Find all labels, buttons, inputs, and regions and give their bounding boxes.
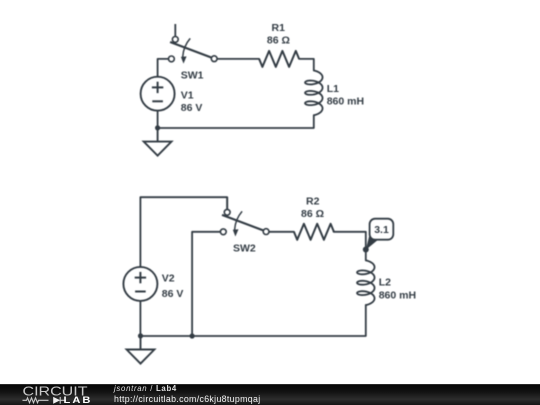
footer credit text (114, 386, 261, 402)
svg-text:860 mH: 860 mH (327, 96, 364, 108)
svg-text:860 mH: 860 mH (379, 289, 416, 301)
wire: SW1 left terminal to V1 top (158, 59, 169, 77)
wire: L2 bottom to bottom rail back to V2 junction (140, 305, 365, 336)
svg-text:86 Ω: 86 Ω (301, 208, 324, 220)
svg-text:LAB: LAB (64, 395, 93, 405)
resistor R1 (259, 51, 299, 67)
resistor R2 (294, 224, 334, 240)
ground (top circuit) (144, 128, 172, 156)
wire: SW2 right terminal to R2 (269, 231, 294, 233)
svg-text:86 Ω: 86 Ω (267, 34, 290, 46)
svg-text:V1: V1 (181, 90, 194, 102)
wire: SW2 left terminal down to bottom rail (192, 232, 220, 336)
voltage source V1 (141, 77, 175, 111)
svg-text:3.1: 3.1 (374, 224, 389, 236)
wire: V2 top up and right to SW2 stub (140, 197, 227, 267)
switch SW2 (220, 197, 269, 237)
inductor L1 (305, 71, 323, 116)
switch SW1 (169, 24, 218, 64)
junction dot at V2 ground node (138, 333, 143, 338)
svg-text:SW1: SW1 (181, 70, 204, 82)
ground (bottom circuit) (127, 336, 155, 364)
inductor L2 (357, 260, 375, 305)
node 3.1 dot (363, 247, 369, 253)
wire: SW1 right terminal to R1 (217, 58, 259, 60)
svg-text:86 V: 86 V (181, 102, 203, 114)
svg-text:V2: V2 (162, 273, 175, 285)
CircuitLab logo (0, 384, 110, 405)
footer bar (0, 384, 540, 405)
svg-text:L2: L2 (379, 277, 391, 289)
wire: R1 to L1 top (299, 59, 314, 71)
junction dot at V1 ground node (155, 125, 160, 130)
wire: node 3.1 to L2 top (365, 250, 367, 261)
voltage source V2 (123, 267, 157, 301)
node 3.1 callout flag (366, 219, 394, 250)
svg-text:L1: L1 (327, 83, 339, 95)
svg-text:R1: R1 (272, 22, 286, 34)
svg-text:R2: R2 (306, 196, 320, 208)
svg-text:SW2: SW2 (233, 243, 256, 255)
wire: V2 bottom to ground junction (139, 301, 141, 336)
svg-text:86 V: 86 V (162, 288, 184, 300)
junction dot at SW2 branch on bottom rail (190, 333, 195, 338)
wire: V1 bottom to ground junction (157, 111, 159, 128)
wire: R2 to node 3.1 (334, 232, 366, 250)
wire: L1 bottom to bottom rail and back to junction (158, 115, 314, 128)
